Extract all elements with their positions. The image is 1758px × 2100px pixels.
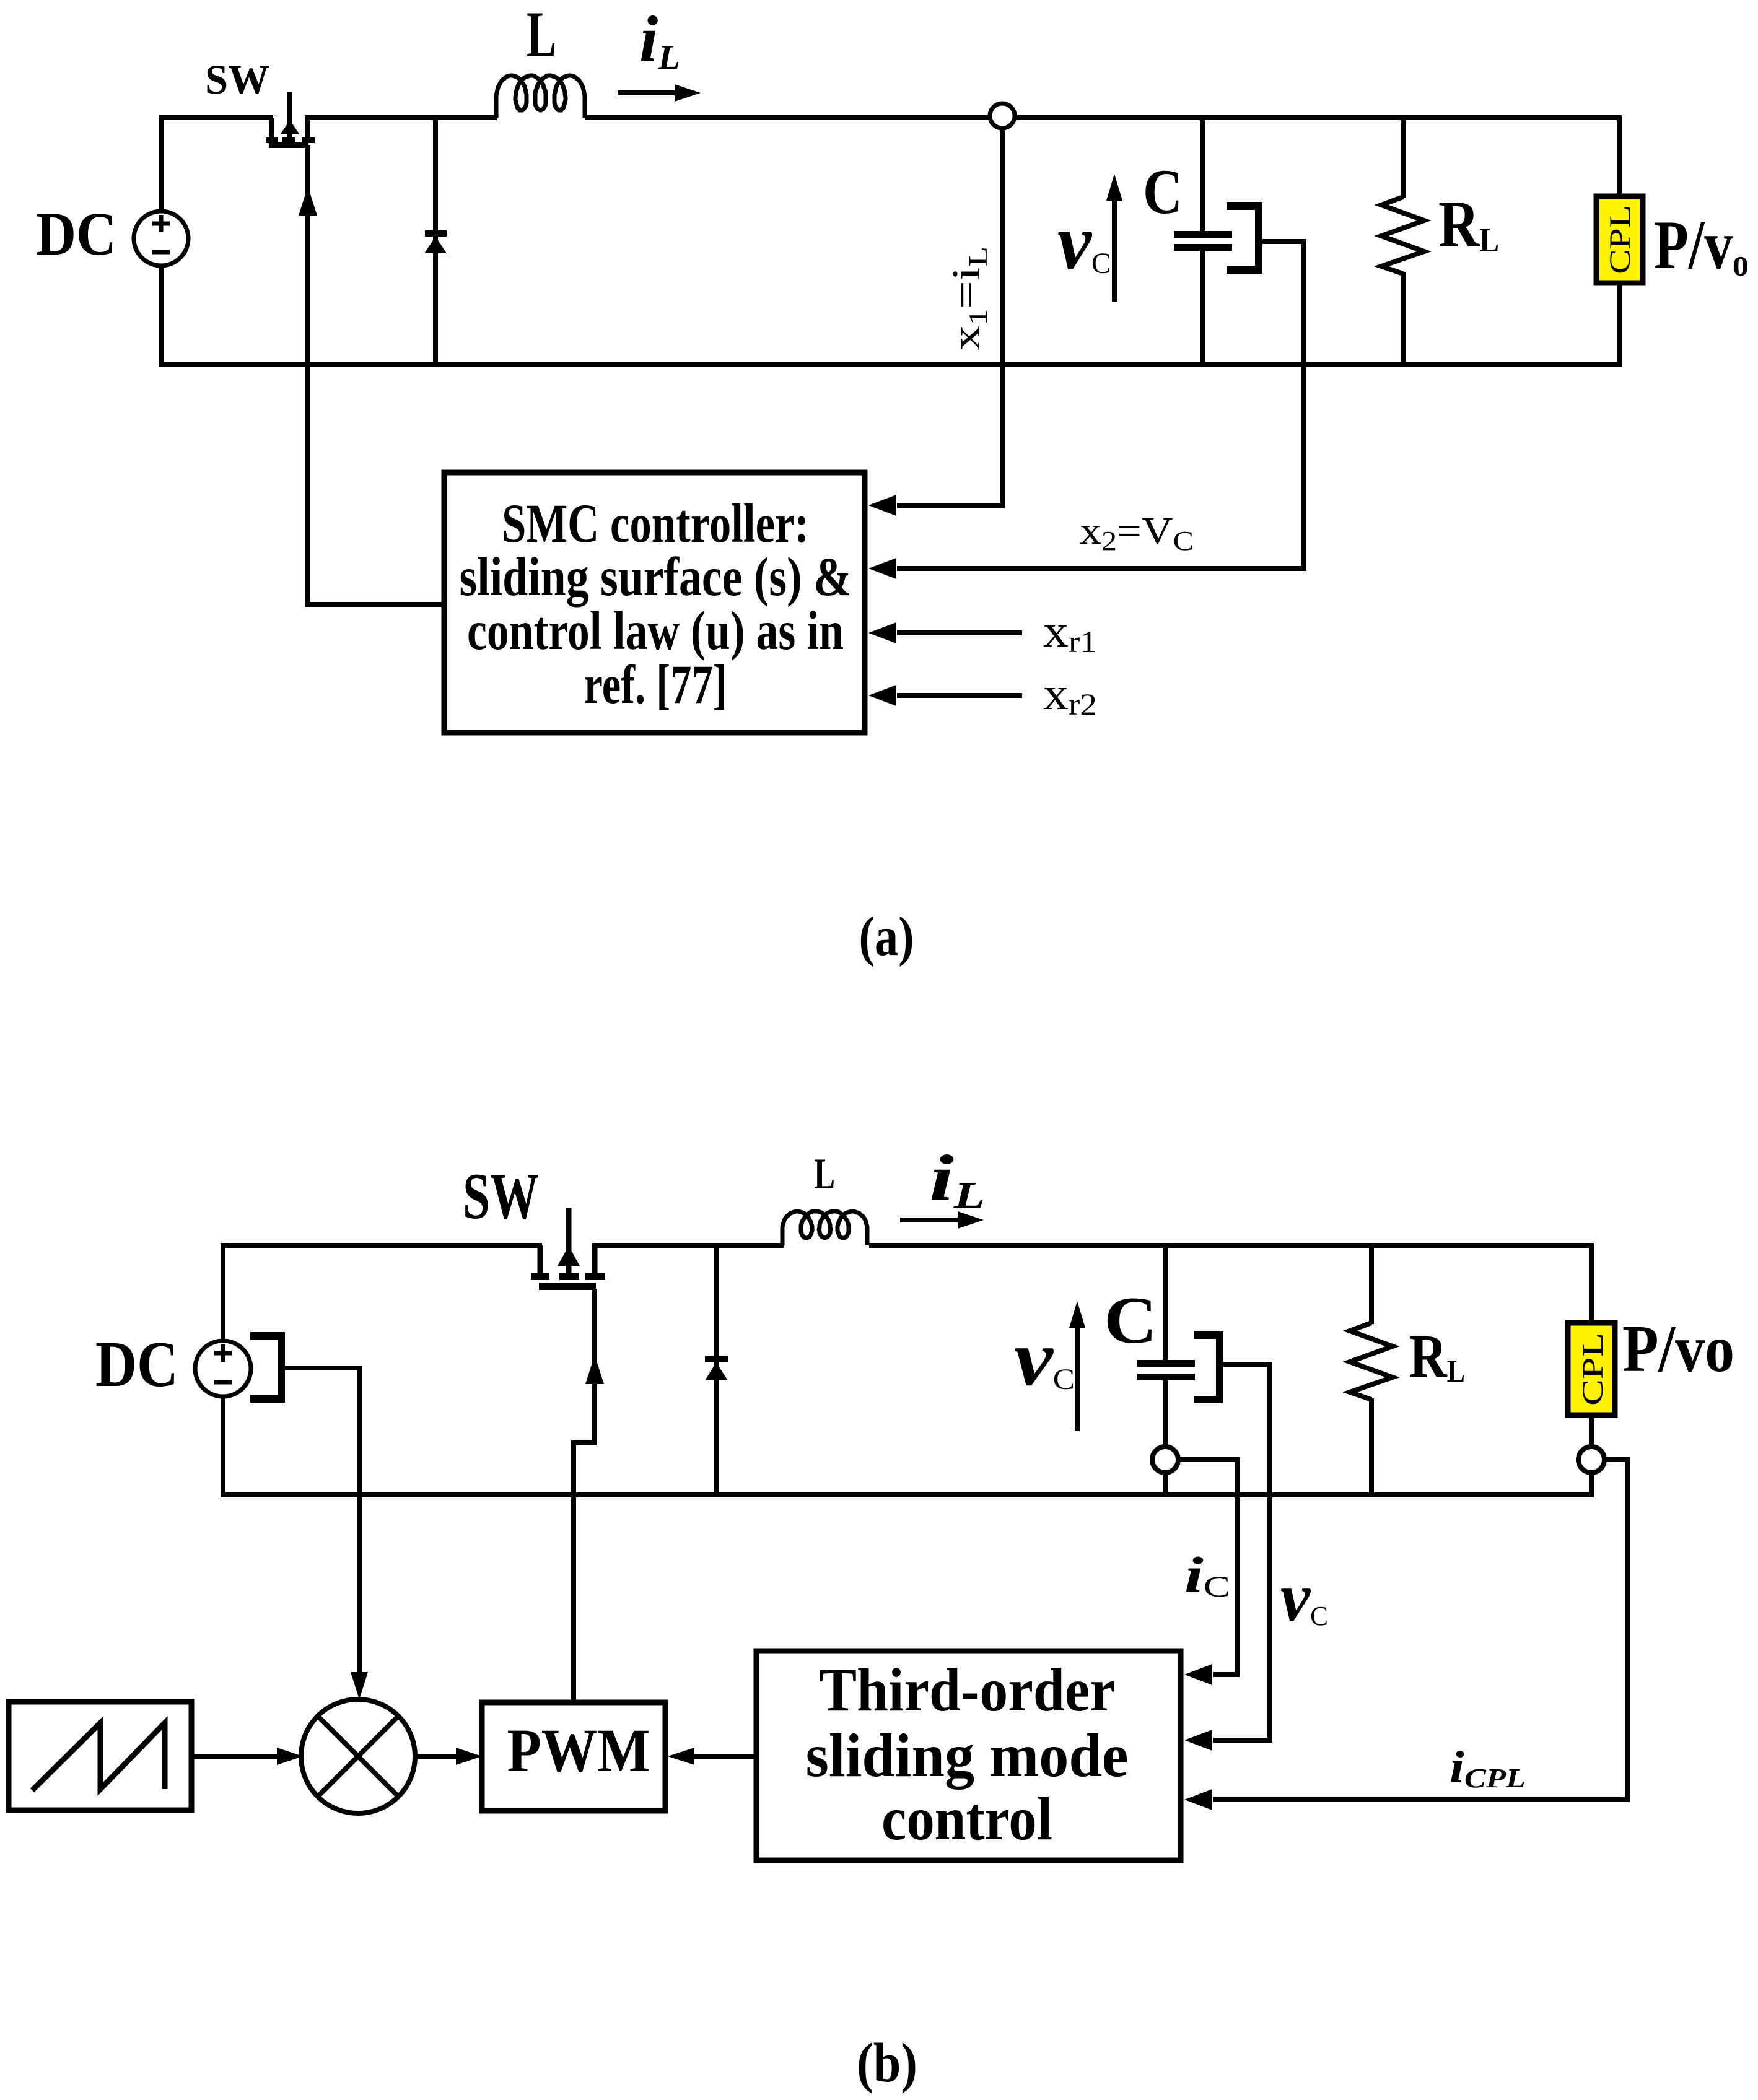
svg-text:PWM: PWM <box>507 1716 650 1785</box>
label P/vo (b) <box>1622 1312 1734 1386</box>
svg-text:L: L <box>527 0 556 71</box>
wire (a): capacitor to bottom rail <box>1200 251 1205 364</box>
multiplier (b) <box>301 1699 415 1813</box>
sense bracket on capacitor (b) <box>1194 1331 1223 1403</box>
wire (b): DC negative down <box>221 1396 225 1495</box>
svg-text:control: control <box>881 1784 1052 1853</box>
wire (b): rail down to CPL <box>1589 1243 1594 1323</box>
svg-text:CPL: CPL <box>1577 1333 1609 1406</box>
transistor SW (b) <box>463 1160 605 1290</box>
inductor L (a) <box>496 0 585 118</box>
wire (b): DC sense to multiplier <box>285 1368 368 1699</box>
label P/vo (a) <box>1654 207 1749 284</box>
node x1 (a) <box>990 103 1015 128</box>
wire (a): xr2 input <box>868 685 1022 706</box>
svg-text:Third-order: Third-order <box>819 1655 1115 1724</box>
wire (a): controller output to gate <box>299 145 444 607</box>
wire (a): x1 feedback to controller <box>868 129 1002 516</box>
sense bracket on capacitor (a) <box>1227 202 1262 274</box>
svg-text:DC: DC <box>36 199 116 268</box>
svg-text:SW: SW <box>463 1160 539 1232</box>
wire (b): multiplier to PWM <box>413 1748 482 1765</box>
svg-text:SMC controller:: SMC controller: <box>502 494 809 554</box>
voltage source DC (b) <box>95 1328 251 1400</box>
resistor RL (a) <box>1381 188 1499 274</box>
wire (b): sawtooth to multiplier <box>191 1748 303 1765</box>
diode D (a) <box>424 230 447 253</box>
wire (a): x2 sense line to controller <box>868 242 1304 579</box>
label iL with arrow (b) <box>900 1141 985 1229</box>
wire (b): bottom rail <box>221 1492 1594 1497</box>
label vC lower (b) <box>1280 1559 1328 1635</box>
svg-text:P/vo: P/vo <box>1622 1312 1734 1386</box>
wire (a): node to right corner <box>1014 115 1619 120</box>
label C (a) <box>1143 157 1183 227</box>
wire (a): DC positive to switch <box>159 118 273 211</box>
label x1=iL (a) <box>944 246 993 351</box>
sense bracket on DC (b) <box>250 1332 285 1403</box>
svg-text:sliding surface (s) &: sliding surface (s) & <box>460 547 852 608</box>
wire (b): capacitor to sense node <box>1163 1380 1168 1447</box>
wire (b): vC sense line to controller <box>1184 1364 1270 1751</box>
transistor SW (a) <box>205 56 315 148</box>
caption (b) <box>857 2032 917 2094</box>
wire (a): switch to inductor <box>305 115 497 120</box>
label xr1 (a) <box>1043 606 1097 659</box>
svg-text:DC: DC <box>95 1328 178 1400</box>
PWM box (b) <box>482 1702 665 1811</box>
controller box third-order SMC (b) <box>756 1651 1181 1860</box>
svg-text:CPL: CPL <box>1604 205 1637 274</box>
wire (a): DC negative down <box>159 266 164 364</box>
wire (b): iC sense line to controller <box>1177 1460 1237 1685</box>
wire (b): sense node to bottom rail <box>1589 1473 1594 1497</box>
wire (b): switch down to PWM <box>574 1289 604 1702</box>
wire (b): rail to capacitor <box>1163 1245 1168 1361</box>
capacitor C (a) <box>1174 231 1232 251</box>
wire (a): resistor to bottom rail <box>1401 272 1406 364</box>
wire (b): inductor to right corner <box>869 1243 1591 1248</box>
sense node terminal iC (b) <box>1152 1447 1178 1473</box>
wire (b): CPL to sense node <box>1589 1415 1594 1447</box>
label x2=Vc (a) <box>1080 510 1194 556</box>
sawtooth generator (b) <box>9 1702 191 1810</box>
capacitor C (b) <box>1137 1360 1195 1380</box>
label iCPL (b) <box>1450 1742 1526 1793</box>
svg-text:(b): (b) <box>857 2032 917 2094</box>
controller box SMC (a) <box>444 473 865 733</box>
wire (b): diode branch <box>714 1245 719 1495</box>
svg-text:ref. [77]: ref. [77] <box>584 655 727 715</box>
svg-text:L: L <box>814 1150 835 1198</box>
diode D (b) <box>705 1356 728 1380</box>
sense node terminal iCPL (b) <box>1578 1447 1604 1473</box>
svg-text:control law (u) as in: control law (u) as in <box>467 601 844 661</box>
wire (b): sense node to bottom rail <box>1163 1473 1168 1495</box>
wire (a): rail down to CPL <box>1617 115 1622 196</box>
wire (b): iCPL sense line to controller <box>1184 1460 1627 1810</box>
wire (b): switch to inductor <box>592 1243 784 1248</box>
label C (b) <box>1104 1284 1157 1357</box>
caption (a) <box>859 906 914 967</box>
wire (a): xr1 input <box>868 622 1022 643</box>
wire (b): controller to PWM <box>668 1748 756 1765</box>
wire (b): rail to resistor RL <box>1369 1245 1374 1324</box>
wire (a): bottom rail <box>159 362 1622 367</box>
wire (b): DC positive to switch <box>221 1245 542 1341</box>
svg-text:(a): (a) <box>859 906 914 967</box>
wire (a): CPL to bottom rail <box>1617 283 1622 367</box>
wire (a): rail to resistor RL <box>1401 118 1406 198</box>
label vC with arrow (b) <box>1014 1301 1085 1431</box>
label iC (b) <box>1184 1546 1230 1603</box>
label vC with arrow (a) <box>1057 174 1122 302</box>
label xr2 (a) <box>1043 669 1097 721</box>
CPL load (a) <box>1596 196 1643 283</box>
svg-text:C: C <box>1104 1284 1157 1357</box>
resistor RL (b) <box>1350 1322 1465 1400</box>
label iL with arrow (a) <box>618 2 701 102</box>
svg-text:sliding mode: sliding mode <box>806 1721 1129 1790</box>
wire (a): diode branch <box>433 118 438 364</box>
CPL load (b) <box>1568 1323 1615 1415</box>
svg-text:C: C <box>1143 157 1183 227</box>
voltage source DC (a) <box>36 199 188 268</box>
wire (b): resistor to bottom rail <box>1369 1398 1374 1495</box>
inductor L (b) <box>782 1150 867 1245</box>
wire (a): rail to capacitor <box>1200 118 1205 232</box>
wire (a): inductor to node x1 <box>585 115 991 120</box>
svg-text:SW: SW <box>205 56 269 103</box>
